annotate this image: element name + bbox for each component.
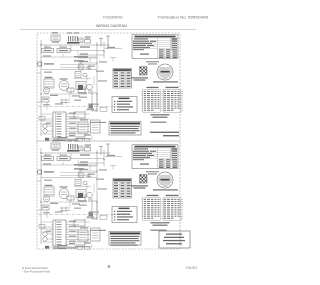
- figure 2 right column: [109, 145, 178, 245]
- svg-text:Publication No: 5995D489: Publication No: 5995D489: [158, 15, 208, 19]
- figure 1 upper wiring diagram schematic: [37, 32, 183, 141]
- svg-text:FCDS3000FS2: FCDS3000FS2: [103, 15, 123, 19]
- header rule: [20, 28, 196, 31]
- figure 2 warning box extra line: [111, 245, 138, 246]
- figure 2 lower wiring diagram schematic: [37, 140, 183, 249]
- figure 2 class B compliance box: [159, 231, 190, 248]
- svg-text:0639: 0639: [186, 266, 197, 270]
- svg-text:WIRING DIAGRAM: WIRING DIAGRAM: [96, 24, 127, 28]
- figure 1 diagram number note line 1: [150, 132, 179, 133]
- figure 1 right column: [109, 35, 178, 135]
- svg-text:8: 8: [108, 264, 111, 269]
- figure 1 diagram number note line 2: [163, 135, 179, 136]
- svg-text:* Non-Functional Parts: * Non-Functional Parts: [22, 270, 51, 274]
